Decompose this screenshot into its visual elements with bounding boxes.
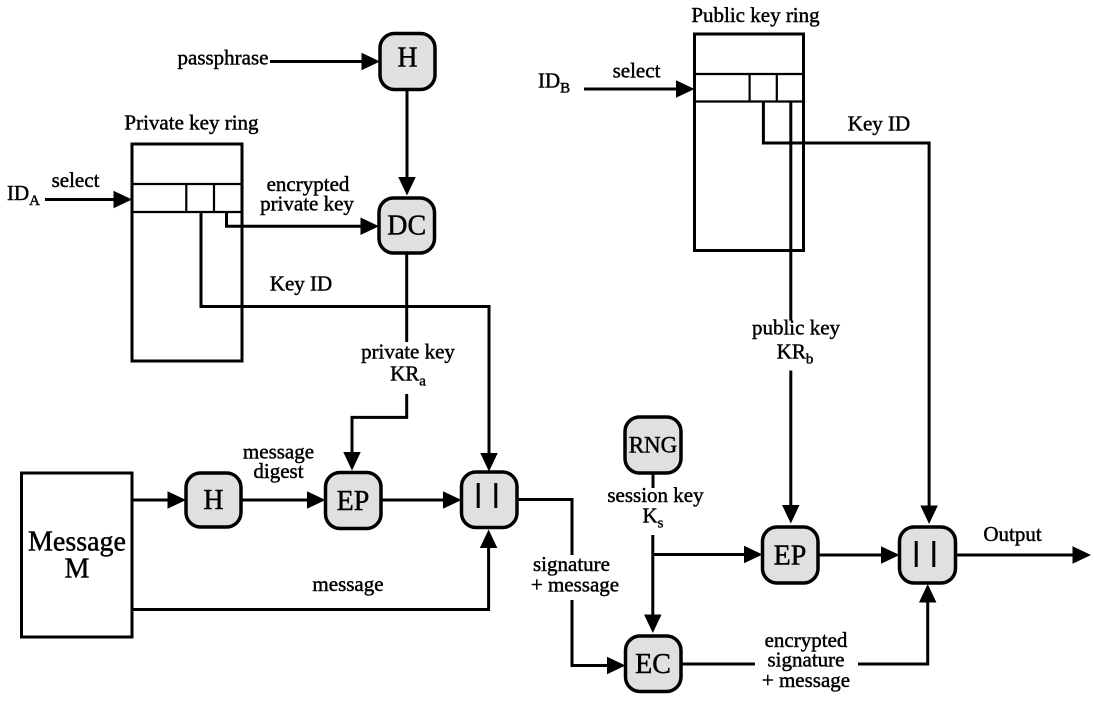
private key ring box (132, 144, 242, 361)
wire key id left (201, 212, 498, 472)
wire session key to EP2 (653, 546, 763, 564)
block EC (626, 636, 682, 692)
wire H2 to EP1 (241, 491, 326, 509)
svg-text:passphrase: passphrase (178, 46, 269, 70)
wire message bottom (132, 530, 497, 610)
block EP2 (763, 527, 819, 583)
wire IDA select arrow (45, 191, 132, 209)
block H2 hash (186, 473, 241, 527)
svg-text:RNG: RNG (629, 433, 678, 458)
svg-text:EC: EC (635, 649, 671, 680)
wire H to DC (398, 90, 416, 196)
svg-text:M: M (65, 554, 90, 585)
block EP1 (326, 473, 382, 529)
wire passphrase to H (270, 53, 380, 71)
wire key id right (763, 102, 937, 525)
svg-text:+ message: + message (531, 573, 619, 597)
wire output (956, 546, 1092, 564)
svg-text:private key: private key (361, 340, 455, 364)
svg-text:public key: public key (752, 316, 841, 340)
svg-text:select: select (52, 168, 100, 192)
wire EP2 to CAT2 (818, 546, 900, 564)
message M box (22, 473, 133, 637)
svg-text:H: H (203, 485, 223, 516)
svg-text:Private key ring: Private key ring (124, 111, 259, 135)
svg-text:Public key ring: Public key ring (691, 3, 820, 27)
wire DC to EP1 (343, 253, 406, 471)
svg-text:Key ID: Key ID (848, 112, 910, 136)
svg-text:EP: EP (337, 486, 370, 517)
wire message M to H2 (132, 491, 186, 509)
wire ring to DC (227, 212, 380, 235)
block DC decrypt (379, 198, 435, 253)
wire RNG stub (652, 473, 655, 488)
wire EC to CAT2 encrypted signature (681, 584, 936, 666)
svg-text:+ message: + message (762, 668, 850, 692)
svg-text:Key ID: Key ID (270, 272, 332, 296)
block H1 hash (380, 34, 435, 90)
svg-text:DC: DC (387, 211, 426, 242)
block CAT1 concatenate (462, 472, 518, 528)
public key ring box (695, 34, 804, 251)
svg-text:private key: private key (260, 192, 354, 216)
svg-text:H: H (397, 43, 417, 74)
wire EP1 to CAT1 (381, 491, 462, 509)
block RNG (625, 417, 681, 473)
wire signature to EC (517, 500, 626, 675)
wire session key down to EC (644, 535, 662, 633)
block CAT2 concatenate (900, 527, 956, 583)
svg-text:Output: Output (983, 522, 1042, 546)
svg-text:EP: EP (774, 540, 807, 571)
svg-text:message: message (312, 572, 383, 596)
svg-text:select: select (613, 59, 661, 83)
svg-text:digest: digest (253, 459, 303, 483)
wire public key (782, 102, 800, 524)
wire IDB select arrow (584, 80, 695, 98)
